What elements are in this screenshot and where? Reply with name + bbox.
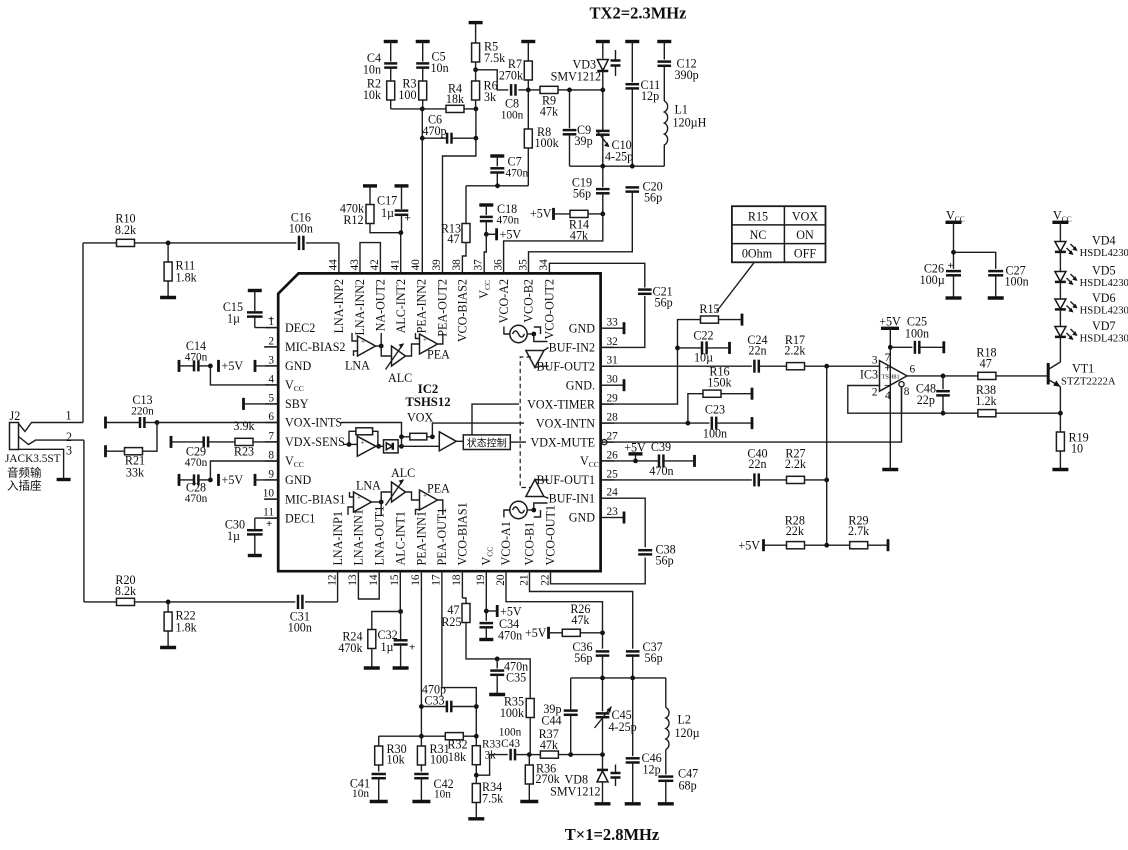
resistor R2 [363, 68, 395, 109]
resistor R22 [164, 602, 198, 647]
pin 18 VCO-BIAS1 (bottom) [451, 502, 469, 585]
svg-text:ALC: ALC [388, 371, 412, 385]
capacitor C30 [225, 518, 278, 556]
wire - Vcc net pin26 with +5V tap [601, 460, 659, 462]
svg-text:VCO-BIAS2: VCO-BIAS2 [456, 279, 470, 342]
svg-text:VCO-B2: VCO-B2 [522, 279, 536, 323]
svg-text:C8: C8 [505, 97, 519, 111]
capacitor C39 [649, 440, 694, 478]
ground [160, 646, 176, 649]
svg-text:PEA: PEA [427, 482, 450, 496]
svg-text:36: 36 [492, 259, 504, 271]
pin 13 LNA-INN1 (bottom) [347, 509, 365, 586]
pin 42 NA-OUT2 (top) [369, 259, 387, 332]
svg-text:7.5k: 7.5k [484, 51, 506, 65]
node - C48 top junction [941, 374, 946, 379]
svg-text:+: + [361, 338, 365, 346]
resistor VOX series [402, 433, 433, 440]
capacitor C5 [416, 42, 449, 76]
svg-text:47: 47 [980, 357, 992, 371]
pin 35 VCO-B2 (top) [517, 259, 535, 323]
connector J2 JACK3.5ST [5, 409, 61, 465]
pin 38 VCO-BIAS2 (top) [451, 259, 469, 342]
svg-text:56p: 56p [655, 296, 673, 310]
capacitor C38 [638, 543, 675, 568]
svg-text:3k: 3k [485, 750, 497, 762]
svg-text:100n: 100n [499, 727, 522, 739]
op-amp PEA (ch1) [420, 482, 451, 512]
wire - PEA2 input hook from pin40 col [416, 333, 420, 339]
wire - PEA1 input hook [416, 510, 420, 516]
ground [882, 468, 898, 471]
wire - R30 branch [379, 735, 422, 737]
svg-text:+: + [885, 363, 891, 375]
resistor R24 [338, 630, 375, 668]
capacitor C28 [179, 474, 210, 505]
svg-text:VOX: VOX [792, 209, 818, 223]
pin 3 GND (left) [265, 354, 311, 373]
svg-text:R23: R23 [234, 445, 254, 459]
svg-text:LNA: LNA [345, 359, 370, 373]
svg-text:VOX-TIMER: VOX-TIMER [527, 397, 596, 411]
wire - R8 bottom to R13 top [466, 185, 528, 187]
svg-text:3.9k: 3.9k [233, 419, 255, 433]
wire - jack pin 3 to ground [19, 444, 73, 479]
resistor R8 [524, 90, 559, 186]
pin 43 LNA-INN2 (top) [349, 259, 367, 336]
svg-text:22k: 22k [786, 524, 805, 538]
node - C19/R14 junction [600, 212, 605, 217]
svg-text:8: 8 [268, 450, 274, 462]
svg-text:56p: 56p [645, 651, 663, 665]
svg-text:5: 5 [268, 392, 274, 404]
pin 44 LNA-INP2 (top) [328, 259, 346, 334]
ground [468, 817, 484, 820]
capacitor C48 [916, 376, 950, 413]
oscillator VCO1 [504, 501, 548, 518]
svg-text:IC3: IC3 [860, 368, 878, 382]
svg-text:18k: 18k [446, 92, 465, 106]
svg-text:9: 9 [268, 468, 274, 480]
svg-text:VOX: VOX [407, 411, 433, 425]
op-amp U-IC2 TSHS12 package outline [278, 273, 600, 571]
wire - pins 43-42 bracket [360, 243, 380, 274]
wire - LNA2 input hooks [352, 333, 358, 341]
capacitor C26 electrolytic [920, 260, 961, 297]
pin 10 MIC-BIAS1 (left) [263, 488, 346, 507]
capacitor C9 [563, 90, 593, 166]
pin 27 VDX-MUTE (right) [531, 431, 619, 450]
node - VD3/C10 top [600, 88, 605, 93]
wire - feedback loop pin2 [848, 386, 899, 414]
wire - jack pin 2 contact [19, 430, 84, 445]
power +5V [486, 228, 521, 242]
ground bar C34 [479, 638, 493, 641]
resistor R17 [784, 333, 879, 370]
svg-text:100n: 100n [1005, 275, 1029, 289]
svg-text:39p: 39p [575, 134, 593, 148]
svg-text:J2: J2 [10, 409, 21, 423]
resistor R29 [848, 514, 888, 552]
svg-text:12p: 12p [643, 763, 661, 777]
wire - emitter feedback rail [899, 412, 978, 414]
svg-text:1µ: 1µ [381, 640, 394, 654]
pin 2 MIC-BIAS2 (left) [265, 335, 345, 354]
svg-text:43: 43 [349, 259, 361, 271]
capacitor C15 [223, 291, 274, 328]
svg-text:11: 11 [263, 507, 274, 519]
wire - Vcc to C26/C27 [953, 222, 955, 269]
pin 20 VCO-A1 (bottom) [495, 521, 513, 586]
svg-text:VD4: VD4 [1092, 234, 1116, 248]
svg-text:SMV1212: SMV1212 [550, 785, 600, 799]
svg-text:4: 4 [268, 373, 274, 385]
svg-text:1.2k: 1.2k [975, 394, 997, 408]
node - R32 right junction [474, 734, 479, 739]
wire - pin8 vertical to feedback rail [901, 387, 903, 413]
svg-text:3: 3 [66, 444, 72, 458]
resistor R32 [421, 733, 476, 764]
pin 41 ALC-INT2 (top) [389, 259, 407, 333]
pin 5 SBY (left) [265, 392, 309, 411]
wire - tank rail [570, 165, 665, 167]
svg-text:+5V: +5V [738, 539, 760, 553]
node - R16 branch junction [686, 421, 691, 426]
svg-text:2.2k: 2.2k [785, 457, 807, 471]
svg-text:ALC-INT2: ALC-INT2 [394, 279, 408, 333]
svg-text:JACK3.5ST: JACK3.5ST [5, 453, 61, 465]
svg-text:100n: 100n [905, 327, 929, 341]
wire - pin15 to R24/C32 [399, 571, 401, 611]
svg-text:+: + [409, 642, 415, 654]
pin 22 VCO-OUT1 (bottom) [539, 505, 557, 586]
node - C6 right junction [474, 136, 479, 141]
svg-text:SMV1212: SMV1212 [551, 70, 601, 84]
svg-text:3k: 3k [484, 90, 497, 104]
svg-text:L2: L2 [678, 713, 691, 727]
wire - mic top rail from jack pin1 via R10, C16 to IC pin44 [83, 243, 339, 423]
op-amp ALC (ch1) [386, 466, 416, 506]
svg-text:LNA: LNA [356, 479, 381, 493]
svg-text:GND: GND [285, 473, 311, 487]
ground [393, 666, 409, 669]
svg-text:24: 24 [607, 487, 619, 499]
svg-text:21: 21 [518, 575, 530, 586]
svg-text:100k: 100k [500, 706, 525, 720]
capacitor C32 electrolytic [378, 612, 416, 668]
svg-text:18: 18 [451, 574, 463, 586]
resistor R3 [398, 68, 426, 109]
svg-text:390p: 390p [675, 68, 699, 82]
svg-text:22n: 22n [748, 344, 766, 358]
svg-text:33: 33 [607, 317, 619, 329]
wire - R5/R6 junction to C8 [476, 70, 509, 90]
resistor R11 [164, 243, 198, 297]
resistor R36 [525, 755, 560, 801]
label IC2 TSHS12 [405, 382, 450, 409]
pin 12 LNA-INP1 (bottom) [326, 511, 344, 586]
svg-text:26: 26 [607, 449, 619, 461]
svg-text:47k: 47k [540, 738, 559, 752]
table - R15 VOX jumper option table [732, 206, 826, 262]
node - R20/R22 junction [166, 600, 171, 605]
svg-text:ALC: ALC [391, 466, 415, 480]
svg-text:LNA-INP2: LNA-INP2 [332, 279, 346, 333]
svg-text:100n: 100n [703, 427, 727, 441]
wire - pin2 stub [264, 346, 278, 348]
svg-text:1µ: 1µ [227, 312, 240, 326]
power +5V [486, 605, 522, 619]
wire - VOX-TIMER interior drop [472, 404, 519, 435]
svg-text:+5V: +5V [222, 473, 244, 487]
svg-text:C35: C35 [506, 671, 526, 685]
svg-text:C7: C7 [508, 155, 522, 169]
wire - VOX-TIMER net pin29 to R15/C22 [601, 320, 701, 405]
svg-text:10n: 10n [431, 61, 449, 75]
resistor R13 [441, 222, 470, 274]
wire - VOX-INTS interior corner [341, 423, 402, 437]
power +5V [219, 359, 244, 373]
node - VOX res to VOX-INTN [430, 434, 435, 439]
node - C11/rail junction [630, 164, 635, 169]
svg-text:L1: L1 [675, 103, 688, 117]
svg-text:–: – [422, 503, 427, 511]
power Vcc [946, 209, 965, 224]
wire - pin25 BUF-OUT1 net rightward [601, 479, 752, 481]
ground [1052, 468, 1068, 471]
resistor R27 [785, 447, 827, 484]
ground [946, 296, 962, 299]
svg-text:220n: 220n [131, 406, 154, 418]
svg-text:MIC-BIAS2: MIC-BIAS2 [285, 340, 345, 354]
wire - BUF-IN2 net: C21 down to IC pin32 [601, 296, 645, 348]
svg-text:NC: NC [750, 228, 767, 242]
wire - pin17 to C33/R32 right and R33 [442, 571, 476, 706]
capacitor C20 [626, 180, 663, 205]
svg-text:29: 29 [607, 393, 619, 405]
resistor R21 [106, 423, 158, 480]
svg-text:56p: 56p [644, 191, 662, 205]
wire - R2 to R3 bottom rail [391, 108, 423, 110]
svg-text:8: 8 [904, 386, 910, 398]
svg-text:33k: 33k [126, 466, 145, 480]
wire - IC3 supply rail pin7/pin4 to ground [889, 328, 891, 468]
node - comparator + input [347, 442, 352, 447]
svg-text:37: 37 [473, 259, 485, 271]
wire - to IC pin6 VOX-INTS [157, 422, 278, 424]
svg-text:+: + [361, 439, 365, 447]
power +5V [624, 441, 646, 461]
capacitor C34 [480, 617, 523, 643]
pin 31 BUF-OUT2 (right) [537, 355, 618, 374]
node - R3/R4 junction [420, 107, 425, 112]
capacitor C18 [479, 202, 519, 234]
pin 7 VDX-SENS (left) [265, 430, 345, 449]
svg-text:MIC-BIAS1: MIC-BIAS1 [285, 492, 345, 506]
resistor R34 [472, 775, 504, 818]
wire - LNA1 out to pin14 col and ALC [372, 501, 382, 503]
resistor R35 [500, 695, 534, 755]
pin 36 VCO-A2 (top) [492, 259, 510, 323]
capacitor C7 [490, 155, 528, 186]
pin 15 ALC-INT1 (bottom) [389, 511, 407, 586]
svg-text:20: 20 [495, 574, 507, 586]
svg-text:470n: 470n [185, 493, 208, 505]
svg-text:VD7: VD7 [1092, 319, 1116, 333]
wire - pin1 stub [255, 327, 278, 329]
resistor R25 [441, 603, 497, 659]
svg-text:PEA-INN2: PEA-INN2 [415, 279, 429, 333]
wire - tank1 rail [571, 677, 666, 679]
capacitor C19 [572, 166, 610, 214]
capacitor C27 [988, 263, 1028, 297]
op-amp PEA (ch2) [420, 334, 451, 362]
svg-text:2.7k: 2.7k [848, 524, 870, 538]
svg-text:12p: 12p [641, 89, 659, 103]
wire - detector to VOX buffer [402, 445, 440, 447]
capacitor C29 [171, 436, 211, 469]
node - C28/+5V junction to pin8 [208, 478, 213, 483]
power +5V [879, 315, 901, 329]
node - C8/R7/R8 junction [526, 88, 531, 93]
svg-text:35: 35 [517, 259, 529, 271]
svg-text:PEA-OUT2: PEA-OUT2 [435, 279, 449, 337]
oscillator VCO2 [504, 325, 548, 342]
svg-text:41: 41 [389, 259, 401, 270]
op-amp VOX buffer [439, 432, 463, 451]
resistor R4 [422, 82, 476, 113]
svg-text:+: + [423, 336, 427, 344]
node - C45/VD8 junction [600, 752, 605, 757]
svg-text:270k: 270k [499, 69, 524, 83]
capacitor C37 [626, 640, 663, 678]
svg-text:7.5k: 7.5k [482, 792, 504, 806]
pin 17 PEA-OUT1 (bottom) [431, 508, 449, 586]
capacitor C25 [890, 315, 944, 354]
wire - pin16 vertical chain [420, 571, 422, 745]
capacitor C41 [350, 774, 386, 801]
svg-text:VT1: VT1 [1072, 362, 1094, 376]
svg-text:19: 19 [475, 574, 487, 586]
svg-text:OFF: OFF [794, 247, 816, 261]
svg-text:C39: C39 [651, 440, 671, 454]
op-amp LNA (ch1) [354, 479, 382, 514]
svg-text:PEA: PEA [427, 348, 450, 362]
svg-text:3: 3 [268, 354, 274, 366]
resistor R18 [976, 346, 1048, 380]
wire - VCO-A1 net pin20 down-right [506, 571, 603, 633]
wire - jack pin 1 contact [19, 409, 84, 432]
wire - VOX-INTN net pin28 rightward [601, 422, 710, 424]
svg-text:音频输: 音频输 [7, 466, 42, 480]
wire - junction down to IC pin4 Vcc [210, 366, 278, 385]
svg-text:VCO-A1: VCO-A1 [499, 521, 513, 565]
wire - mute dashed control line [520, 357, 531, 488]
svg-text:1: 1 [65, 409, 71, 423]
svg-text:470n: 470n [506, 168, 529, 180]
node - R5/R6 junction [473, 67, 478, 72]
resistor R28 [764, 514, 851, 549]
svg-text:8.2k: 8.2k [115, 223, 137, 237]
capacitor C6 [422, 113, 476, 144]
node - R32 left junction [419, 734, 424, 739]
node - C34/+5V junction [484, 609, 489, 614]
svg-text:13: 13 [347, 574, 359, 586]
wire - R3 node down to C6 and pin40 [421, 109, 423, 138]
ground tick [614, 322, 624, 334]
svg-text:+: + [405, 213, 411, 225]
svg-text:30: 30 [607, 374, 619, 386]
op-amp VOX comparator [357, 436, 376, 457]
wire - LNA2 out to pin42 col and ALC [376, 345, 382, 347]
op-amp BUF2 [526, 347, 549, 367]
resistor R14 [554, 210, 603, 242]
svg-text:GND: GND [285, 359, 311, 373]
svg-text:ALC-INT1: ALC-INT1 [394, 511, 408, 565]
wire - pin10 stub [264, 498, 278, 500]
wire - VDX-MUTE net pin27 to op-amp shutdown [602, 387, 902, 445]
svg-text:VCO-A2: VCO-A2 [497, 279, 511, 323]
svg-text:4: 4 [885, 390, 891, 402]
svg-text:+5V: +5V [624, 441, 646, 455]
node - C14/+5V junction to pin4 [208, 364, 213, 369]
svg-text:40: 40 [410, 259, 422, 271]
ground [520, 800, 538, 803]
svg-text:100: 100 [398, 88, 416, 102]
wire - op-amp output pin6 [907, 375, 978, 377]
node - C18/+5V junction on pin37 Vcc [484, 232, 489, 237]
wire - pin37 vertical [484, 234, 486, 273]
wire - R6 node down to C6 and pin40 [475, 109, 477, 138]
svg-text:470n: 470n [185, 457, 208, 469]
pin 32 BUF-IN2 (right) [549, 336, 619, 355]
svg-text:C23: C23 [705, 403, 725, 417]
svg-text:56p: 56p [574, 651, 592, 665]
ground tick [614, 512, 624, 524]
resistor R37 [529, 727, 602, 758]
svg-text:31: 31 [607, 355, 618, 367]
LED VD7 HSDL4230 [1055, 319, 1128, 345]
power +5V [530, 207, 554, 221]
inductor L2 120u [666, 678, 700, 775]
LED VD4 HSDL4230 [1055, 234, 1128, 260]
resistor R15 [699, 302, 742, 326]
node A - R10/R11 junction [166, 241, 171, 246]
capacitor C35 [490, 659, 528, 694]
svg-text:27: 27 [607, 431, 619, 443]
svg-text:PEA-OUT1: PEA-OUT1 [435, 508, 449, 566]
wire - mic bottom rail from jack pin2 via R20, C31 to IC pin12 [84, 440, 338, 602]
svg-text:GND: GND [569, 321, 595, 335]
svg-text:7: 7 [885, 352, 891, 364]
ground [364, 666, 380, 669]
capacitor C36 [572, 631, 609, 678]
svg-text:42: 42 [369, 259, 381, 271]
label - jack Chinese text 音频输入插座 [7, 466, 42, 493]
svg-text:SBY: SBY [285, 397, 309, 411]
svg-text:470p: 470p [422, 124, 446, 138]
svg-text:3: 3 [872, 355, 878, 367]
resistor R16 [688, 365, 752, 424]
capacitor C31 [288, 595, 312, 635]
ground [160, 296, 176, 299]
wire - R33 node to C43 [476, 755, 508, 776]
svg-text:NA-OUT2: NA-OUT2 [374, 279, 388, 331]
wire - pin31 BUF-OUT2 net rightward [601, 365, 752, 367]
svg-text:VDX-MUTE: VDX-MUTE [531, 435, 596, 449]
svg-text:GND.: GND. [566, 378, 595, 392]
svg-text:10k: 10k [387, 753, 406, 767]
